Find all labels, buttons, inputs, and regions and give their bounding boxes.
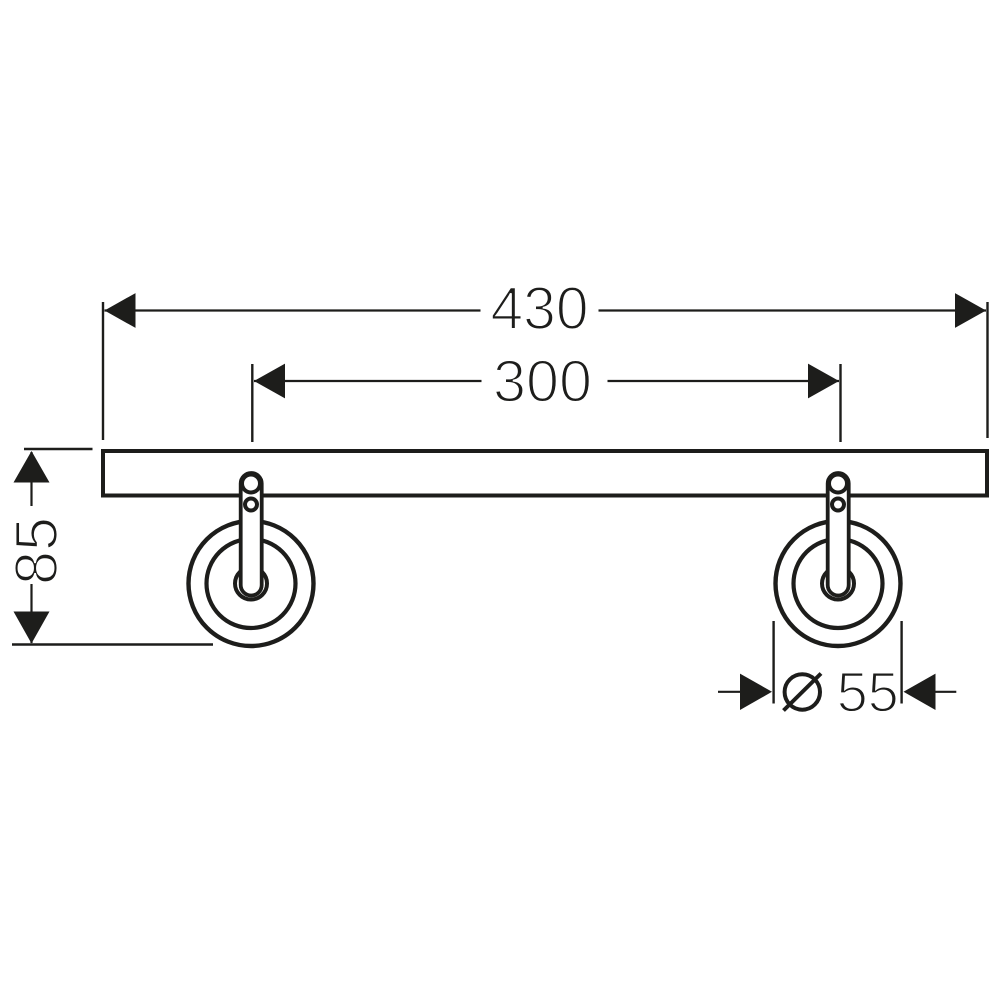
dimension 430 left extension line	[102, 302, 104, 440]
dimension 430 left arrowhead	[105, 293, 136, 328]
left flange post cap circle	[242, 475, 260, 493]
dimension 85 line upper segment	[30, 452, 32, 506]
left flange outer circle	[189, 521, 314, 646]
right flange post	[828, 473, 849, 596]
dimension 85 bottom tick	[12, 643, 213, 645]
svg-text:430: 430	[491, 275, 589, 342]
dimension D55 left leader line	[718, 691, 741, 693]
right flange post cap circle	[829, 475, 847, 493]
dimension 300 line left segment	[254, 380, 482, 382]
dimension 300 right arrowhead	[808, 364, 839, 399]
left flange inner circle	[207, 539, 296, 628]
dimension 430 right extension line	[986, 302, 988, 438]
dimension 85 up arrowhead	[14, 451, 50, 483]
left flange post small circle	[245, 499, 257, 511]
dimension D55 right extension line	[900, 621, 902, 704]
diameter symbol circle	[785, 674, 820, 709]
diameter symbol slash	[784, 674, 822, 711]
dimension 85 line lower segment	[30, 584, 32, 643]
svg-text:300: 300	[493, 349, 592, 415]
svg-text:55: 55	[837, 661, 899, 725]
dimension D55 right arrowhead	[904, 674, 936, 710]
left flange hub circle	[235, 568, 267, 600]
dimension 430 right arrowhead	[955, 293, 986, 328]
dimension 300 right extension line	[839, 364, 841, 442]
dimension 430 line left segment	[105, 309, 481, 311]
right flange hub circle	[822, 568, 854, 600]
dimension 430 line right segment	[599, 309, 987, 311]
dimension D55 left arrowhead	[740, 674, 772, 710]
dimension 300 left arrowhead	[254, 364, 285, 399]
dimension 85 top tick	[24, 448, 93, 450]
right flange inner circle	[794, 539, 883, 628]
right flange post small circle	[832, 499, 844, 511]
dimension D55 left extension line	[772, 621, 774, 704]
towel bar	[103, 451, 987, 496]
dimension 300 line right segment	[608, 380, 840, 382]
dimension D55 right leader line	[935, 691, 957, 693]
dimension 85 down arrowhead	[14, 612, 50, 644]
dimension 300 left extension line	[251, 364, 253, 442]
left flange post	[241, 473, 262, 596]
svg-text:85: 85	[3, 517, 70, 585]
right flange outer circle	[776, 521, 901, 646]
